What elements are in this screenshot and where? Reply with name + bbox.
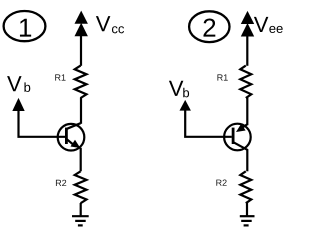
wire: Vb to Q2 base xyxy=(185,109,232,137)
Vcc label xyxy=(96,16,124,33)
R2 value label (circuit 2) xyxy=(216,180,221,186)
resistor R2 (circuit 2) xyxy=(240,171,251,203)
resistor R1 (circuit 2) xyxy=(240,66,251,98)
Vee label xyxy=(254,17,283,33)
ground (circuit 2) xyxy=(240,216,255,225)
wire: R2 to ground (circuit 2) xyxy=(246,203,248,216)
R2 value label (circuit 1) xyxy=(56,180,61,186)
wire: Q2 collector to R2 xyxy=(246,150,248,172)
Vee supply arrow (double arrowhead) xyxy=(241,11,254,66)
R1 value label (circuit 2) xyxy=(217,74,222,80)
R1 value label (circuit 1) xyxy=(55,74,60,80)
resistor R2 (circuit 1) xyxy=(75,171,87,203)
resistor R1 (circuit 1) xyxy=(75,66,87,98)
wire: Vb to Q1 base xyxy=(19,109,66,137)
transistor Q2 (PNP) xyxy=(224,124,251,151)
transistor Q1 (NPN) xyxy=(58,123,85,150)
Vb label (circuit 2) xyxy=(169,81,189,98)
wire: R2 to ground (circuit 1) xyxy=(80,203,82,216)
node label 1 (circled) xyxy=(4,11,46,41)
wire: Q1 emitter to R2 xyxy=(80,148,82,172)
wire: R1 to Q1 collector xyxy=(80,98,82,124)
Vb arrow (circuit 2) xyxy=(180,100,191,111)
Vcc supply arrow (double arrowhead) xyxy=(75,11,88,66)
wire: R1 to Q2 emitter xyxy=(246,98,248,126)
Vb label (circuit 1) xyxy=(7,76,30,92)
node label 2 (circled) xyxy=(189,11,229,42)
ground (circuit 1) xyxy=(72,216,89,225)
Vb arrow (circuit 1) xyxy=(12,98,24,111)
